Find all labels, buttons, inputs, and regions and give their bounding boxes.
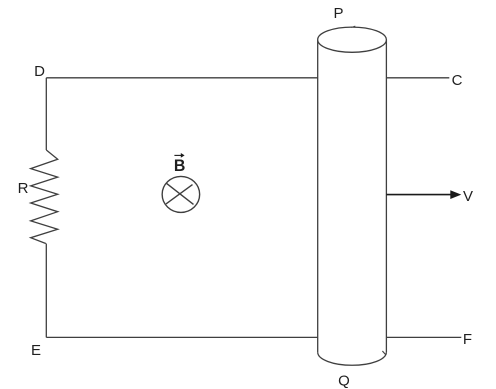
field X line 1 bbox=[167, 183, 194, 204]
svg-text:B: B bbox=[174, 156, 186, 175]
cylinder bottom arc bbox=[318, 352, 387, 365]
svg-text:E: E bbox=[31, 342, 41, 359]
velocity arrow V bbox=[386, 194, 451, 196]
field X line 2 bbox=[166, 185, 193, 204]
wire top: D to C bbox=[46, 77, 449, 79]
svg-text:D: D bbox=[34, 63, 45, 80]
svg-text:C: C bbox=[452, 72, 463, 89]
wire left lower: resistor down to E bbox=[45, 244, 47, 338]
svg-text:Q: Q bbox=[338, 373, 350, 389]
svg-text:F: F bbox=[463, 331, 472, 348]
resistor R1 zigzag bbox=[31, 150, 58, 244]
field symbol circle bbox=[162, 176, 200, 212]
cylinder left side bbox=[317, 40, 319, 353]
wire left upper: D down to resistor bbox=[45, 78, 47, 150]
svg-text:V: V bbox=[463, 188, 473, 205]
svg-text:R: R bbox=[18, 180, 29, 197]
artifact tick bottom right of cylinder bbox=[382, 351, 385, 355]
cylinder rod PQ body bbox=[318, 40, 387, 353]
svg-text:P: P bbox=[333, 5, 343, 22]
artifact tick top of ellipse bbox=[351, 26, 355, 27]
cylinder top ellipse bbox=[318, 27, 387, 52]
wire bottom: E to F bbox=[46, 336, 461, 338]
arrow over B bbox=[174, 154, 181, 156]
cylinder right side bbox=[385, 40, 387, 353]
